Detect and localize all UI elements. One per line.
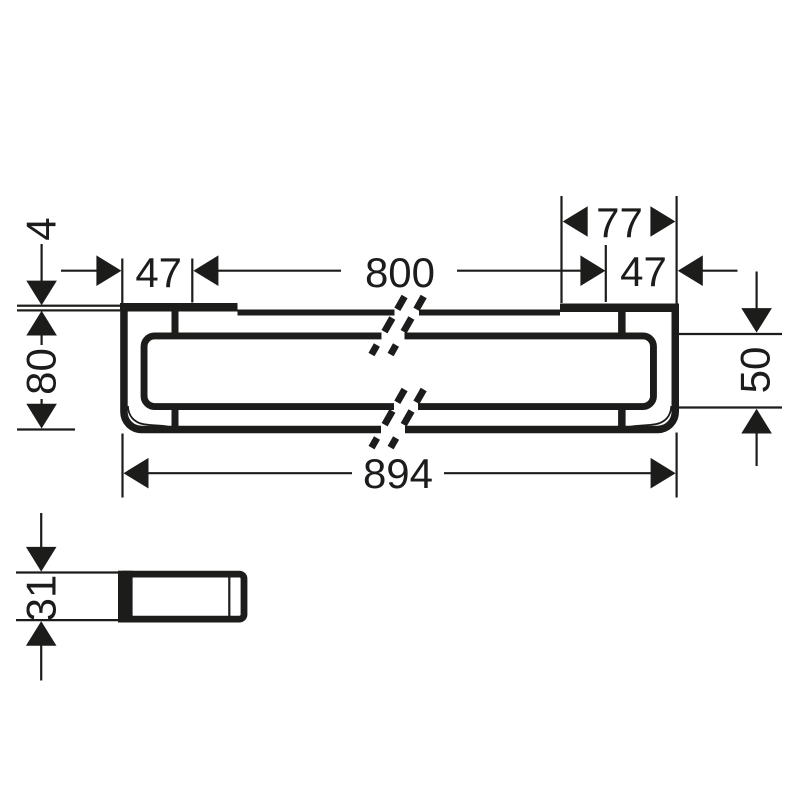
- mounting plate left: [120, 303, 238, 312]
- top view inner line: [228, 575, 230, 619]
- dim 894 extension left: [121, 434, 123, 498]
- dim 31 extension top: [16, 571, 118, 573]
- svg-text:80: 80: [18, 348, 65, 395]
- arrow 77 left: [563, 206, 588, 237]
- arrow 800 left: [193, 255, 218, 286]
- arrow dim80 down: [26, 404, 57, 429]
- dim 47 right trailing: [701, 270, 738, 272]
- dim 894 line right: [444, 472, 651, 474]
- dim 47 left leader: [61, 270, 98, 272]
- svg-text:4: 4: [18, 217, 65, 240]
- dim 31 extension bottom: [16, 619, 118, 621]
- dim 50 line bottom: [755, 433, 757, 466]
- frame outline: [124, 303, 675, 429]
- arrow 77 right: [650, 206, 675, 237]
- break slash B: [391, 297, 424, 355]
- dim 4 vertical line: [40, 244, 42, 281]
- frame corner fillet left: [128, 406, 168, 427]
- wall line lower: [17, 309, 120, 311]
- dim 31 line bottom: [40, 645, 42, 681]
- arrow 894 left: [124, 458, 149, 489]
- top view outline: [122, 574, 244, 619]
- break gap rail bottom: [394, 401, 418, 414]
- support right lower: [618, 408, 626, 428]
- svg-text:894: 894: [363, 450, 433, 497]
- extension line x122: [121, 259, 123, 304]
- dim 80 bottom extension: [17, 428, 75, 430]
- break slash A: [372, 297, 405, 355]
- support right upper: [618, 312, 626, 335]
- extension line x605: [605, 245, 607, 302]
- dim 80 line upper: [40, 335, 42, 345]
- arrow 50 up: [741, 409, 772, 434]
- shelf strip: [238, 310, 561, 316]
- arrow 31 up: [26, 621, 57, 646]
- arrow 894 right: [651, 458, 676, 489]
- arrow 47R left: [678, 255, 703, 286]
- dim 894 extension right: [675, 433, 677, 498]
- dim 50 extension top: [679, 333, 783, 335]
- dim 80 line lower: [40, 399, 42, 405]
- support left lower: [172, 408, 179, 428]
- rail outline: [144, 336, 653, 407]
- dim 894 line left: [149, 472, 353, 474]
- frame corner fillet right: [631, 406, 671, 427]
- extension line x676 upper: [675, 196, 677, 304]
- dim 800 line right: [457, 270, 582, 272]
- extension line x561: [560, 196, 562, 303]
- arrow 47L right: [96, 255, 121, 286]
- break gap strip: [395, 307, 420, 319]
- break slash C: [372, 390, 405, 448]
- svg-text:50: 50: [732, 347, 779, 394]
- svg-text:47: 47: [135, 249, 182, 296]
- break gap frame bottom: [381, 424, 405, 436]
- top view end cap: [118, 571, 133, 623]
- arrow 800 right: [580, 255, 605, 286]
- dim 50 line top: [755, 272, 757, 310]
- svg-text:47: 47: [620, 248, 667, 295]
- dim 31 line top: [40, 513, 42, 549]
- break slash D: [391, 390, 424, 448]
- svg-text:31: 31: [18, 575, 65, 622]
- svg-text:800: 800: [365, 249, 435, 296]
- arrow dim4 down: [26, 281, 57, 306]
- arrow 31 down: [26, 547, 57, 572]
- svg-text:77: 77: [596, 199, 643, 246]
- break gap rail top: [382, 329, 405, 342]
- support left upper: [172, 311, 179, 334]
- dim 50 extension bottom: [679, 406, 783, 408]
- dim 800 line left: [216, 270, 341, 272]
- mounting plate right: [560, 304, 679, 313]
- arrow 50 down: [741, 308, 772, 333]
- arrow dim80 up: [26, 311, 57, 336]
- extension line x192: [191, 259, 193, 303]
- wall line upper: [17, 305, 120, 307]
